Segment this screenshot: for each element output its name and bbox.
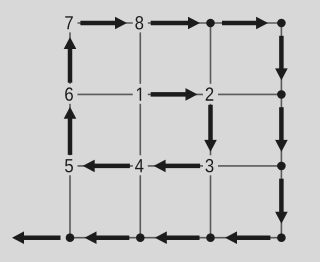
junction dot at column 3 row 4 [206,233,215,242]
wire: horizontal grid line row 1 [70,22,281,24]
arrow exit bottom-left [12,231,61,244]
junction dot at column 3 row 1 [206,19,215,28]
arrow 7->8 [80,17,127,30]
node 1 [133,84,148,104]
wire: vertical grid line column 2 [139,23,141,238]
arrow dot->dot right col seg2 [275,107,288,152]
arrow dot->dot bottom seg3 [85,231,130,244]
junction dot at column 4 row 4 [277,233,286,242]
arrow 1->2 [151,88,198,101]
node 7 [63,12,78,32]
wire: horizontal grid line row 3 [70,165,281,167]
node 4 [133,155,148,175]
wire: vertical grid line column 1 [69,23,71,238]
arrow dot->dot right col seg3 [275,179,288,224]
arrow 5->6 [64,107,77,155]
node 3 [203,155,218,175]
wire: horizontal grid line row 4 [70,237,281,239]
arrow dot->dot bottom seg2 [155,231,200,244]
arrow 2->3 [204,105,217,152]
junction dot at column 1 row 4 [66,233,75,242]
arrow 3->4 [154,160,201,173]
junction dot at column 4 row 3 [277,162,286,171]
junction dot at column 2 row 4 [136,233,145,242]
node 8 [133,12,148,32]
arrow 4->5 [83,160,130,173]
wire: vertical grid line column 4 [280,23,282,238]
arrow 6->7 [64,37,77,83]
node 6 [63,84,78,104]
arrow dot->dot bottom seg1 [225,231,270,244]
node 2 [203,84,218,104]
arrow dot->dot top-right [222,17,268,30]
arrow dot->dot right col seg1 [275,36,288,81]
junction dot at column 4 row 2 [277,90,286,99]
wire: vertical grid line column 3 [210,23,212,238]
node 5 [63,155,78,175]
arrow 8->dot [151,17,200,30]
junction dot at column 4 row 1 [277,19,286,28]
wire: horizontal grid line row 2 [70,93,281,95]
